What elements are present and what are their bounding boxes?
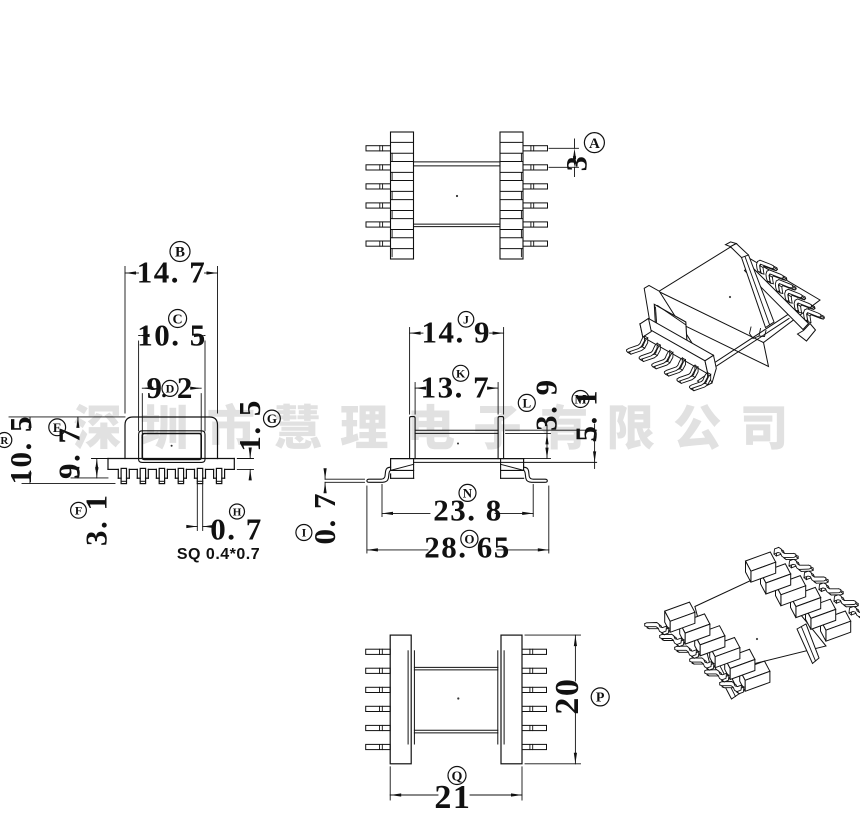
svg-text:9: 9: [147, 370, 164, 405]
iso bottom view back pin 4: [821, 585, 843, 595]
top view pin 6 left: [366, 241, 391, 246]
svg-text:P: P: [596, 691, 605, 706]
ext line bend right: [532, 485, 534, 517]
iso top view back flange bottom tabs: [750, 327, 761, 339]
iso bottom view front flange fin: [714, 660, 740, 700]
balloon label H: [230, 504, 245, 519]
svg-text:0. 7: 0. 7: [307, 492, 342, 545]
svg-text:D: D: [166, 382, 175, 396]
iso bottom view back rib block 5: [806, 599, 836, 618]
bottom view pin 6 right: [522, 744, 547, 749]
side view left pedestal block: [390, 459, 392, 471]
ext line base bottom right: [237, 468, 253, 470]
extension line pin1: [549, 147, 579, 149]
ext line body top: [9, 416, 125, 418]
svg-text:L: L: [522, 395, 531, 410]
bottom view left flange: [390, 635, 411, 764]
iso bottom view back rib block 1: [746, 552, 776, 571]
bottom view right flange: [501, 635, 522, 764]
balloon label G: [264, 410, 281, 427]
dimension B=14.7: [125, 272, 139, 274]
bottom view pin 3 left: [366, 687, 391, 692]
front view base pedestal: [108, 458, 234, 460]
side view right gull-wing pin: [524, 467, 548, 482]
iso bottom view front rib block 3: [695, 626, 725, 645]
side view left gull-wing pin: [367, 467, 391, 482]
top view winding tube edge lines: [414, 161, 501, 163]
svg-text:SQ 0.4*0.7: SQ 0.4*0.7: [177, 546, 260, 563]
svg-text:I: I: [302, 526, 307, 540]
iso bottom view front pin 4: [692, 660, 714, 670]
svg-text:M: M: [574, 392, 586, 407]
iso bottom view back rib block 4: [791, 587, 821, 606]
iso top view front pedestal bar: [640, 319, 714, 361]
iso bottom view front rib block 2: [680, 614, 710, 633]
iso top view back pin 2: [769, 272, 787, 284]
balloon label K: [453, 365, 469, 381]
iso top view bore opening: [654, 304, 687, 347]
bottom view pin 1 left: [366, 649, 391, 654]
iso bottom view back pin 5: [836, 597, 858, 607]
ext line pin5 left: [196, 484, 198, 531]
iso top view front pin 2: [642, 345, 660, 361]
ext line foot tip right: [548, 486, 550, 553]
svg-text:J: J: [463, 312, 469, 326]
balloon label R: [0, 433, 12, 448]
iso top view back flange: [730, 244, 774, 328]
front view pin 2: [140, 468, 145, 483]
top view pin 3 right: [523, 184, 548, 189]
iso top view back pin 6: [807, 311, 825, 323]
iso bottom view front pin 5: [707, 672, 729, 682]
ext line base top left: [92, 458, 109, 460]
svg-text:N: N: [463, 485, 473, 500]
iso bottom view front pin 3: [677, 648, 699, 658]
ext line C left: [138, 341, 140, 431]
ext line flange top right: [525, 634, 581, 636]
balloon label I: [296, 525, 312, 541]
iso bottom view base plate underside: [695, 573, 826, 674]
front view pin 5: [197, 468, 202, 483]
ext lines of tube edges to dims L and M: [506, 429, 597, 431]
balloon label E: [49, 419, 66, 436]
iso bottom view front pin 1: [647, 625, 669, 635]
front view pin 3: [159, 468, 164, 483]
iso top view front pin 1: [630, 338, 648, 354]
svg-text:10. 5: 10. 5: [3, 415, 38, 485]
front view flange body outline: [125, 417, 218, 459]
svg-text:14. 7: 14. 7: [137, 255, 207, 290]
iso bottom view back pin 6: [851, 608, 860, 618]
svg-text:3. 1: 3. 1: [79, 493, 114, 546]
iso top view back pin 4: [788, 291, 806, 303]
svg-text:B: B: [175, 245, 185, 261]
iso bottom view front rib block 4: [710, 638, 740, 657]
iso top view back pin 5: [798, 301, 816, 313]
top view pin 4 left: [366, 203, 391, 208]
svg-text:2: 2: [177, 370, 194, 405]
iso bottom view back pin 3: [806, 573, 828, 583]
bottom view pin 5 right: [522, 725, 547, 730]
ext line foot top: [325, 478, 364, 480]
bottom view tube edges: [414, 666, 497, 668]
top view left flange outline: [391, 132, 414, 259]
iso top view winding tube: [659, 291, 769, 366]
ext line right flange outer: [521, 767, 523, 800]
bottom view pin 6 left: [366, 744, 391, 749]
side view centre mark: [457, 443, 459, 445]
top view pin 5 right: [523, 222, 548, 227]
svg-text:E: E: [53, 420, 62, 435]
top view pin 1 right: [523, 146, 548, 151]
ext line foot tip left: [366, 486, 368, 553]
iso top view back pin 1: [760, 262, 778, 274]
ext line foot bottom: [325, 481, 364, 483]
top view centre mark: [456, 195, 458, 197]
ext line B left: [124, 267, 126, 414]
ext line left flange outer: [389, 767, 391, 800]
svg-text:20: 20: [549, 678, 586, 715]
balloon label P: [591, 688, 609, 706]
iso top view front pin 6: [693, 374, 711, 390]
ext line bend left: [381, 485, 383, 517]
balloon label C: [169, 310, 187, 328]
iso top view front flange: [644, 286, 692, 350]
ext line D right: [200, 394, 202, 434]
ext line C right: [204, 341, 206, 431]
bottom view flange inner-face lines: [407, 651, 409, 744]
side view right pedestal block: [523, 459, 525, 471]
ext line pin5 right: [202, 484, 204, 531]
iso bottom view back rib block 3: [776, 576, 806, 595]
top view pin 6 right: [523, 241, 548, 246]
bottom view pin 4 right: [522, 706, 547, 711]
iso bottom view front rib block 1: [665, 602, 695, 621]
side view winding tube edges: [415, 429, 498, 431]
front view winding window inner frame: [142, 434, 201, 460]
top view pin 1 left: [366, 146, 391, 151]
svg-text:3: 3: [561, 155, 594, 172]
bottom view pin 5 left: [366, 725, 391, 730]
iso top view front pin 5: [680, 367, 698, 383]
iso bottom view back pin 1: [776, 549, 798, 559]
balloon label M: [572, 391, 589, 408]
svg-text:1. 5: 1. 5: [232, 399, 267, 452]
bottom view pin 3 right: [522, 687, 547, 692]
balloon label O: [461, 530, 478, 547]
ext line flange bottom right: [525, 763, 581, 765]
top view pin 5 left: [366, 222, 391, 227]
balloon label L: [518, 394, 535, 411]
iso top view back bar right end block: [798, 324, 816, 342]
dimension J=14.9: [410, 332, 423, 334]
dimension K=13.7: [415, 387, 423, 389]
dimension L=3.9: [546, 433, 548, 458]
svg-text:21: 21: [434, 779, 471, 816]
front view pin 4: [178, 468, 183, 483]
dimension M=5.1: [594, 430, 596, 462]
top view right flange outline: [500, 132, 523, 259]
balloon label J: [458, 312, 474, 328]
top view flange segment lines and grooves: [391, 141, 414, 143]
iso top view base plate edge: [712, 315, 788, 365]
svg-text:H: H: [233, 506, 242, 518]
bottom view pin 2 left: [366, 668, 391, 673]
svg-text:R: R: [0, 435, 9, 447]
front view pin 1: [121, 468, 126, 483]
side view left flange wall: [410, 417, 416, 459]
svg-text:F: F: [75, 503, 82, 517]
watermark company name 深圳市慧理电子有限公司: [74, 403, 784, 450]
top view pin 2 left: [366, 165, 391, 170]
svg-text:Q: Q: [452, 769, 463, 784]
iso top view back flange top edge: [726, 242, 737, 247]
ext line D left: [141, 394, 143, 434]
iso bottom view front pin 2: [662, 636, 684, 646]
iso bottom view back pin 2: [791, 561, 813, 571]
balloon label N: [459, 484, 476, 501]
extension line pin2: [549, 166, 579, 168]
ext line base top right: [237, 458, 253, 460]
svg-text:K: K: [456, 366, 466, 380]
bottom view pin 2 right: [522, 668, 547, 673]
top view pin 4 right: [523, 203, 548, 208]
dimension D=9.2: [142, 387, 146, 389]
iso bottom view centre mark: [756, 638, 758, 640]
side view base plate: [391, 458, 524, 460]
front view centre mark: [171, 445, 173, 447]
iso top view back pin 3: [779, 282, 797, 294]
iso bottom view front rib block 6: [740, 661, 770, 680]
svg-text:A: A: [589, 136, 600, 152]
bottom view pin 1 right: [522, 649, 547, 654]
iso top view front pin 4: [668, 360, 686, 376]
top view pin 2 right: [523, 165, 548, 170]
balloon label D: [162, 380, 178, 396]
front view winding window outer frame: [139, 431, 205, 463]
ext line B right: [217, 267, 219, 414]
front view pin 6: [216, 468, 221, 483]
svg-text:C: C: [173, 312, 183, 327]
top view pin 3 left: [366, 184, 391, 189]
ext line pin bottom: [22, 482, 115, 484]
iso bottom view back rib block 6: [821, 611, 851, 630]
iso top view front bar right end block: [698, 355, 717, 386]
iso bottom view back flange fin: [797, 624, 819, 664]
bottom view pin 4 left: [366, 706, 391, 711]
balloon label Q: [448, 767, 466, 785]
svg-text:14. 9: 14. 9: [421, 315, 491, 350]
svg-text:G: G: [267, 411, 277, 426]
side view right flange wall: [498, 417, 504, 459]
svg-text:3. 9: 3. 9: [529, 378, 564, 431]
iso bottom view front pin 6: [722, 684, 744, 694]
balloon label F: [71, 502, 87, 518]
svg-text:O: O: [464, 531, 474, 546]
iso top view back pedestal bar: [745, 265, 809, 330]
decimal point of 9.2: [162, 394, 166, 398]
ext line pin shoulder: [71, 477, 108, 479]
iso bottom view front rib block 5: [725, 649, 755, 668]
front view base bottom edge with notches: [108, 468, 118, 470]
dimension C=10.5: [139, 335, 140, 337]
balloon label A: [584, 133, 604, 153]
iso top view centre mark: [729, 296, 731, 298]
iso top view front pin 3: [655, 353, 673, 369]
bottom view centre mark: [457, 697, 459, 699]
ext lines J (wall outer) and K (wall inner): [409, 328, 411, 415]
iso bottom view back rib block 2: [761, 564, 791, 583]
balloon label B: [170, 242, 190, 262]
